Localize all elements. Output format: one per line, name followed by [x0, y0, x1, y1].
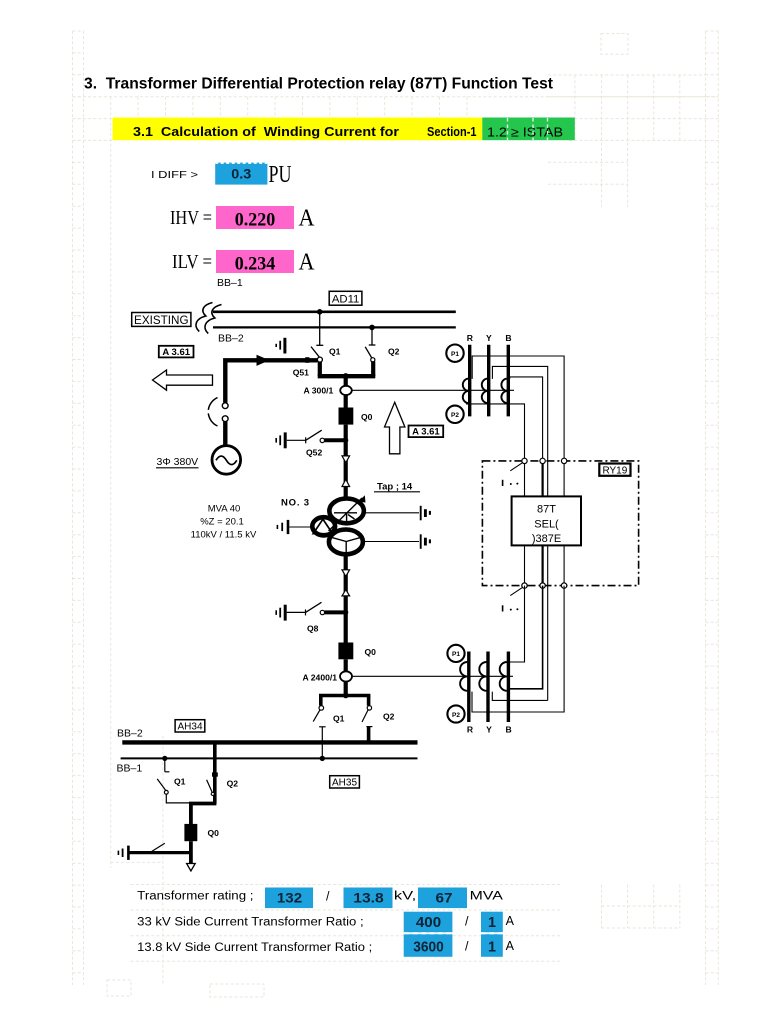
relay terminal 1 (bottom)	[522, 583, 527, 588]
svg-text:A 2400/1: A 2400/1	[303, 673, 338, 683]
hollow up arrow symbol	[385, 402, 405, 454]
svg-text:Q52: Q52	[306, 448, 322, 458]
delta mark	[313, 519, 332, 534]
CT winding arcs B (top)	[501, 379, 506, 404]
relay terminal 3 (bottom)	[561, 583, 566, 588]
trunk Q0 to CT	[344, 659, 348, 672]
outgoing Q2 leg from BB-2	[213, 742, 217, 803]
svg-text:Q0: Q0	[208, 828, 220, 838]
yellow band	[113, 118, 483, 141]
svg-text:R: R	[467, 725, 474, 735]
phase bar R (top)	[468, 345, 471, 417]
svg-text:MVA: MVA	[470, 891, 504, 903]
earth bars (outgoing)	[118, 846, 128, 860]
CT winding arcs R (lower)	[460, 662, 467, 691]
outgoing Q1 stub	[165, 758, 170, 771]
svg-text:/: /	[326, 890, 330, 904]
outgoing Q2 blade	[207, 780, 213, 793]
svg-text:Q2: Q2	[227, 779, 239, 789]
svg-text:A: A	[506, 914, 515, 928]
CT winding arcs R (top)	[463, 379, 468, 404]
bay Q1 hinge circle	[319, 706, 324, 711]
svg-text:A: A	[299, 250, 316, 276]
trunk Q0 to Q52 junction	[344, 425, 348, 497]
svg-text:A: A	[506, 939, 515, 953]
svg-text:P1: P1	[451, 351, 459, 358]
CT bank (13.8kV) P1 polarity	[447, 645, 464, 662]
switch Q8 hinge tick	[305, 609, 307, 615]
svg-text:Q0: Q0	[365, 647, 377, 657]
label Tap ; 14	[374, 482, 420, 493]
secondary wire B to relay terminal 2	[510, 377, 543, 461]
svg-text:%Z = 20.1: %Z = 20.1	[200, 517, 244, 528]
svg-text:P1: P1	[452, 651, 460, 658]
CT secondary line to right (lower)	[352, 675, 513, 677]
svg-text:67: 67	[436, 889, 453, 905]
generator 3phase source	[212, 446, 241, 475]
svg-text:AH34: AH34	[177, 722, 202, 733]
phase bar B (top)	[507, 345, 510, 417]
trunk CT to bay bar	[344, 682, 348, 696]
svg-text:Q1: Q1	[174, 777, 186, 787]
svg-text:Q2: Q2	[383, 712, 395, 722]
disconnector Q1 stub from BB-1	[316, 312, 323, 346]
transformer T HV winding circle	[329, 499, 364, 524]
bay Q1 blade	[313, 710, 320, 722]
svg-text:132: 132	[277, 889, 302, 905]
thick feeder wire with arrowhead	[225, 355, 317, 403]
CT A 300/1	[340, 386, 352, 395]
label 3phi 380V	[156, 456, 199, 468]
LV neutral earth lead	[363, 541, 419, 543]
junction dot on BB-1 (outgoing Q1)	[162, 756, 167, 761]
CT secondary line to right	[352, 389, 514, 391]
junction on BB-1	[317, 309, 323, 315]
svg-text:MVA 40: MVA 40	[208, 504, 241, 515]
switch Q52 blade	[306, 430, 322, 440]
outgoing feeder below breaker	[189, 841, 193, 863]
wire bottom terminal 3 to lower bank	[472, 586, 564, 712]
outgoing collector bar	[189, 802, 216, 806]
svg-text:NO. 3: NO. 3	[281, 498, 310, 509]
transformer LV wye circle	[329, 530, 363, 555]
svg-text:AD11: AD11	[332, 294, 360, 306]
junction blob Q51 on feeder	[305, 357, 309, 363]
trunk bar to CT	[344, 376, 348, 386]
svg-text:1: 1	[488, 939, 496, 956]
green band	[482, 118, 575, 141]
svg-text:13.8 kV Side Current Transform: 13.8 kV Side Current Transformer Ratio ;	[137, 942, 372, 954]
label AD11	[329, 291, 362, 305]
svg-text:AH35: AH35	[332, 778, 357, 789]
flow arrow up (open) below transformer	[342, 590, 350, 596]
svg-text:3.1 Calculation of Winding C: 3.1 Calculation of Winding Current for	[133, 124, 399, 139]
CT winding arcs Y (top)	[482, 379, 487, 404]
bus BB-2 (second)	[213, 326, 456, 328]
wire earth to Q52 hinge	[287, 439, 306, 441]
svg-text:A 300/1: A 300/1	[304, 386, 334, 396]
bay Q2 leg upper	[367, 696, 371, 706]
svg-text:0.234: 0.234	[235, 254, 276, 274]
svg-text:400: 400	[416, 914, 441, 931]
earth (tertiary)	[277, 520, 288, 534]
secondary wire to relay terminal 1	[466, 404, 525, 461]
svg-text:PU: PU	[269, 162, 292, 188]
svg-text:1.2 ≥ ISTAB: 1.2 ≥ ISTAB	[487, 125, 563, 140]
svg-text:EXISTING: EXISTING	[134, 314, 189, 327]
switch Q8 contact circle	[320, 610, 324, 614]
wires inside relay panel	[525, 461, 565, 586]
svg-text:1: 1	[488, 914, 496, 931]
faint spreadsheet grid	[73, 31, 719, 997]
bus break squiggle	[196, 303, 222, 334]
label RY19	[599, 464, 630, 477]
switch Q52 contact circle	[320, 438, 324, 442]
svg-text:BB–2: BB–2	[117, 728, 143, 740]
svg-text:Q51: Q51	[293, 368, 309, 378]
HV neutral earth lead	[363, 512, 419, 514]
relay terminal 1 (top)	[522, 458, 527, 463]
outgoing feeder down	[189, 804, 193, 825]
outgoing Q2 contact blob	[212, 772, 218, 776]
phase labels R Y B (top bank)	[467, 333, 512, 343]
junction dot Q52/trunk	[343, 438, 348, 443]
bus BB-1 (top)	[213, 310, 456, 313]
svg-text:Q8: Q8	[307, 624, 319, 634]
svg-text:A 3.61: A 3.61	[412, 427, 440, 438]
wire bottom terminal 2 to lower bank	[510, 586, 543, 689]
svg-text:BB–2: BB–2	[218, 333, 244, 345]
svg-text:Y: Y	[486, 333, 492, 343]
svg-text:SEL(: SEL(	[534, 519, 559, 531]
svg-text:kV,: kV,	[394, 891, 416, 903]
test link marks (bottom)	[503, 588, 523, 612]
disconnector Q1 hinge	[317, 357, 322, 362]
svg-text:Q1: Q1	[333, 714, 345, 724]
CT bank (33kV) P2 polarity	[446, 406, 463, 423]
svg-text:3Φ 380V: 3Φ 380V	[157, 456, 199, 468]
bus BB-1 (bottom)	[121, 757, 418, 759]
label AH35	[330, 776, 360, 789]
earth (HV neutral)	[421, 506, 430, 521]
relay terminal 3 (top)	[561, 458, 566, 463]
svg-text:P2: P2	[451, 412, 459, 419]
svg-text:Q0: Q0	[361, 412, 373, 422]
svg-text:Q2: Q2	[388, 347, 400, 357]
bay Q1 wire to BB-1	[321, 727, 323, 759]
breaker Q0 (upper)	[339, 408, 354, 425]
flow arrow up (open) on trunk	[342, 479, 350, 486]
tertiary earth lead	[289, 526, 312, 528]
relay 87T box	[512, 496, 581, 545]
svg-text:I DIFF >: I DIFF >	[151, 169, 198, 181]
relay terminal 2 (bottom)	[540, 583, 545, 588]
svg-text:)387E: )387E	[532, 533, 561, 545]
flow arrow down (open) on trunk	[342, 456, 350, 463]
svg-text:0.3: 0.3	[231, 166, 251, 182]
svg-text:/: /	[465, 914, 469, 928]
phase bar B (lower)	[507, 652, 510, 723]
outgoing Q1 wire to collector	[166, 794, 191, 803]
label AH34	[175, 720, 205, 733]
CT bank (33kV) P1 polarity	[446, 345, 463, 362]
svg-text:Transformer rating ;: Transformer rating ;	[137, 891, 253, 903]
svg-text:BB–1: BB–1	[117, 763, 143, 775]
svg-text:RY19: RY19	[602, 466, 627, 477]
svg-text:B: B	[505, 333, 511, 343]
svg-text:Y: Y	[486, 725, 492, 735]
svg-text:Tap ; 14: Tap ; 14	[377, 482, 413, 493]
secondary wire R to relay terminal 3	[472, 356, 564, 461]
bay Q1 leg upper	[319, 696, 323, 706]
header and data rows	[84, 76, 575, 957]
svg-text:33 kV Side Current Transformer: 33 kV Side Current Transformer Ratio ;	[137, 916, 363, 928]
svg-text:3600: 3600	[413, 939, 444, 956]
disconnector Q2 blade	[365, 347, 372, 358]
phase bar Y (lower)	[486, 652, 489, 723]
disconnector Q1 blade	[311, 347, 319, 358]
wire bottom terminal 1 to lower bank	[510, 586, 525, 662]
breaker Q0 (outgoing)	[184, 824, 197, 841]
thick collector bar	[318, 374, 376, 378]
transformer rating text block	[191, 504, 257, 541]
switch Q52 hinge tick	[305, 437, 307, 443]
earth bars of Q8	[276, 605, 285, 621]
outgoing Q1 blade	[157, 779, 166, 791]
HV winding wye mark	[334, 513, 357, 522]
bay Q2 contact tick	[366, 726, 372, 728]
earth bars of Q52	[276, 432, 285, 448]
earthing switch blade (outgoing)	[150, 843, 164, 852]
svg-text:A 3.61: A 3.61	[162, 347, 190, 358]
outgoing feeder end arrow	[187, 864, 196, 872]
bay Q2 hinge circle	[367, 706, 371, 710]
phase bar Y (top)	[487, 345, 490, 417]
label A 3.61 (right)	[409, 426, 444, 438]
junction dot on BB-1 (bay Q1)	[320, 756, 325, 761]
svg-text:Q1: Q1	[329, 347, 341, 357]
svg-text:B: B	[505, 725, 511, 735]
svg-text:/: /	[465, 940, 469, 954]
hollow left arrow	[153, 370, 213, 390]
junction dot bay bar	[343, 693, 349, 699]
disconnector Q2 hinge	[371, 358, 375, 362]
thick link Q8 to trunk	[325, 610, 346, 614]
label EXISTING	[132, 313, 191, 327]
junction dot Q8/trunk	[343, 610, 348, 615]
junction on BB-2	[369, 325, 375, 331]
test link marks (top)	[503, 463, 523, 486]
wye mark LV	[331, 537, 361, 553]
svg-text:Section-1: Section-1	[427, 124, 477, 139]
earth (LV neutral)	[421, 534, 430, 549]
bay collector bar	[319, 694, 370, 698]
relay terminal 2 (top)	[540, 458, 545, 463]
bay Q2 blade	[362, 710, 368, 722]
svg-text:13.8: 13.8	[353, 889, 384, 905]
wire Q2 hinge down	[371, 361, 375, 376]
disconnector Q2 stub from BB-2	[369, 327, 376, 345]
wire contacts to generator	[223, 422, 227, 446]
CT winding arcs Y (lower)	[479, 662, 486, 691]
wire Y bypass to lower bank	[492, 692, 547, 701]
svg-text:BB–1: BB–1	[217, 277, 243, 289]
bay Q1 contact tick	[319, 726, 325, 728]
SCHEMATIC1	[117, 277, 639, 871]
trunk below transformer	[344, 555, 348, 643]
svg-text:R: R	[467, 333, 474, 343]
earthing branch wire	[130, 851, 191, 854]
svg-text:IHV =: IHV =	[170, 208, 212, 229]
label A 3.61 (left)	[159, 346, 194, 358]
transformer tertiary delta circle	[312, 517, 335, 535]
svg-text:A: A	[299, 206, 316, 232]
generator isolating contacts	[208, 398, 228, 426]
phase labels R Y B (lower bank)	[467, 725, 512, 735]
svg-text:0.220: 0.220	[235, 210, 276, 230]
relay panel RY19 dash-dot border	[482, 461, 638, 586]
svg-text:87T: 87T	[537, 504, 556, 516]
CT bank (13.8kV) P2 polarity	[447, 705, 464, 722]
wire earth to Q8 hinge	[287, 611, 306, 613]
bay Q2 wire to BB-2	[367, 727, 371, 743]
svg-text:110kV / 11.5 kV: 110kV / 11.5 kV	[191, 530, 257, 541]
secondary wire Y bypass down	[492, 366, 547, 700]
svg-text:3. Transformer Differential P: 3. Transformer Differential Protection r…	[84, 76, 553, 93]
svg-text:ILV =: ILV =	[172, 252, 212, 273]
bus BB-2 (bottom)	[122, 740, 417, 744]
breaker Q0 (lower)	[338, 643, 353, 660]
tap changer arrow	[329, 495, 366, 531]
switch Q8 blade	[306, 602, 322, 612]
outgoing Q1 hinge circle	[164, 790, 168, 794]
CT A 2400/1	[340, 671, 352, 681]
thick link Q52 to trunk	[325, 438, 346, 442]
trunk CT to Q0	[344, 395, 348, 408]
flow arrow down (open) below transformer	[342, 570, 350, 577]
CT winding arcs B (lower)	[500, 662, 507, 691]
wire Q1 hinge to corner bar	[318, 362, 322, 376]
earth bars of Q51	[276, 338, 285, 354]
phase bar R (lower)	[467, 652, 470, 723]
svg-text:P2: P2	[452, 712, 460, 719]
outgoing Q2 hinge circle	[211, 792, 214, 795]
